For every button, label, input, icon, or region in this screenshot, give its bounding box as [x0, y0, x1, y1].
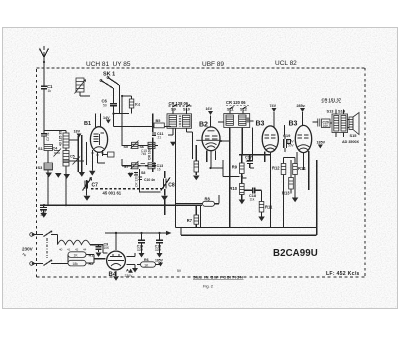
svg-text:R9: R9: [232, 165, 238, 170]
svg-text:42: 42: [75, 248, 79, 252]
svg-text:18k: 18k: [73, 262, 79, 266]
svg-text:185V: 185V: [155, 259, 164, 263]
svg-text:41: 41: [67, 248, 71, 252]
svg-text:S5: S5: [124, 145, 128, 149]
svg-text:R7: R7: [187, 218, 193, 223]
svg-text:21k: 21k: [41, 213, 47, 217]
svg-text:C10 4n: C10 4n: [144, 178, 155, 182]
svg-text:185V: 185V: [317, 141, 326, 145]
svg-text:B5: B5: [156, 119, 161, 123]
svg-text:50V: 50V: [288, 144, 295, 148]
svg-text:16k: 16k: [246, 159, 252, 163]
svg-text:B3: B3: [256, 121, 265, 128]
svg-text:S15: S15: [350, 133, 358, 138]
svg-text:∿: ∿: [22, 253, 27, 259]
svg-text:LF: 452 Kc/s: LF: 452 Kc/s: [326, 271, 360, 277]
svg-text:C2 31: C2 31: [46, 132, 50, 141]
svg-text:UY 85: UY 85: [113, 61, 131, 68]
svg-text:1k: 1k: [48, 89, 52, 93]
svg-text:S13: S13: [327, 109, 335, 114]
svg-text:CR 128 06: CR 128 06: [169, 101, 189, 106]
svg-text:SK 1: SK 1: [103, 72, 115, 78]
svg-text:285v.: 285v.: [297, 104, 306, 108]
svg-text:R14: R14: [298, 166, 306, 171]
svg-text:UBF 89: UBF 89: [202, 61, 224, 68]
svg-text:18V: 18V: [74, 130, 81, 134]
svg-text:230V: 230V: [22, 247, 34, 252]
svg-text:S7: S7: [124, 165, 128, 169]
svg-text:R13: R13: [282, 191, 290, 196]
svg-text:7k5: 7k5: [141, 152, 146, 156]
svg-text:16K: 16K: [323, 124, 330, 128]
svg-text:S14: S14: [338, 109, 346, 114]
svg-text:CR 120 06: CR 120 06: [226, 100, 246, 105]
svg-text:16V: 16V: [206, 107, 213, 111]
svg-text:230V: 230V: [125, 274, 134, 278]
svg-text:S8: S8: [141, 171, 145, 175]
svg-text:B2CA99U: B2CA99U: [273, 248, 318, 259]
svg-text:CR 103 87: CR 103 87: [148, 144, 152, 160]
svg-text:R4: R4: [135, 102, 141, 107]
svg-text:B1: B1: [84, 121, 91, 127]
svg-text:AD 3500X: AD 3500X: [342, 140, 360, 144]
svg-text:S9: S9: [171, 107, 177, 112]
svg-text:74V: 74V: [270, 104, 277, 108]
svg-text:CR 151 37: CR 151 37: [322, 98, 342, 103]
svg-text:21: 21: [158, 136, 162, 140]
svg-text:B3: B3: [289, 121, 298, 128]
svg-text:UCH 81: UCH 81: [86, 61, 110, 68]
svg-text:40: 40: [59, 248, 63, 252]
svg-text:5V: 5V: [177, 269, 182, 273]
svg-text:CR 130 87: CR 130 87: [135, 172, 139, 187]
svg-text:10K: 10K: [104, 246, 111, 250]
svg-text:C19: C19: [283, 133, 291, 138]
svg-text:Fig. 2: Fig. 2: [203, 283, 214, 288]
svg-text:R8: R8: [205, 196, 211, 201]
svg-text:S3: S3: [38, 165, 44, 170]
svg-text:32M: 32M: [137, 248, 144, 252]
svg-text:32M: 32M: [155, 248, 162, 252]
svg-text:B4: B4: [109, 272, 117, 278]
svg-text:UCL 82: UCL 82: [275, 60, 297, 67]
svg-text:R2: R2: [89, 262, 94, 266]
svg-text:B2: B2: [199, 121, 208, 128]
svg-text:11k: 11k: [250, 197, 255, 201]
svg-text:S10: S10: [183, 107, 190, 112]
svg-text:R6: R6: [144, 258, 149, 262]
svg-text:43 125 35: 43 125 35: [59, 131, 63, 146]
svg-text:50: 50: [103, 104, 107, 108]
svg-text:S11: S11: [227, 107, 235, 112]
svg-text:45 001 61: 45 001 61: [103, 190, 122, 195]
svg-text:C5: C5: [70, 155, 75, 159]
svg-text:14V: 14V: [103, 116, 110, 120]
svg-text:R1: R1: [89, 254, 94, 258]
svg-text:S2: S2: [129, 172, 133, 176]
svg-text:S12: S12: [240, 107, 248, 112]
svg-text:R11: R11: [265, 205, 273, 210]
svg-text:C7: C7: [92, 183, 99, 189]
svg-text:44: 44: [83, 248, 87, 252]
svg-text:R12: R12: [272, 165, 280, 170]
svg-text:A: A: [126, 268, 129, 273]
svg-text:16: 16: [157, 168, 161, 172]
svg-text:S1: S1: [38, 146, 44, 151]
svg-text:C8: C8: [168, 183, 175, 189]
svg-text:SEL IN SW POSITION: SEL IN SW POSITION: [193, 274, 244, 279]
svg-text:R10: R10: [230, 186, 238, 191]
